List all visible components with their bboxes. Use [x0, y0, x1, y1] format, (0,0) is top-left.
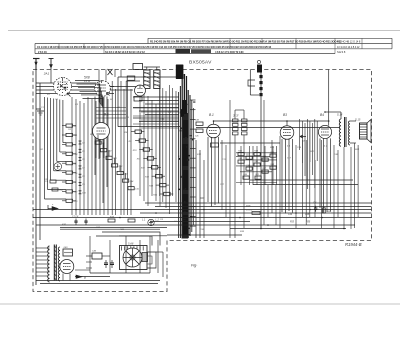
- bus line 6 AVC: [230, 228, 346, 230]
- wire bundle under tube B1: [44, 97, 46, 199]
- wire bundle left of switch: [159, 85, 161, 196]
- table row 3 dark entries: [176, 49, 191, 53]
- right wire bundle: [221, 140, 223, 210]
- output coupling nested loops: [148, 252, 157, 268]
- wires tube B2 to coils: [110, 86, 144, 88]
- bus stub below switch: [167, 234, 242, 236]
- arrow into B1 cathode: [67, 93, 71, 97]
- output transformer core: [344, 117, 346, 147]
- ground symbol G1: [36, 108, 41, 110]
- volume control arrow: [300, 135, 306, 138]
- resistor R16b box: [108, 219, 115, 222]
- band switch dark core: [182, 113, 189, 239]
- tube B1 envelope: [54, 78, 72, 96]
- svg-text:S1 2 8 4 16 S2 14 2 8 S3 1O: S1 2 8 4 16 S2 14 2 8 S3 1O 4 6 2 12: [105, 50, 145, 54]
- mains transformer T1 primary winding: [48, 246, 50, 282]
- component value table frame: [148, 37, 392, 39]
- lower left small parts: [50, 180, 56, 183]
- box below triode: [134, 97, 142, 102]
- wire bundle center-left: [71, 97, 73, 215]
- resistor R17b box: [128, 219, 135, 222]
- detector black blob: [257, 65, 262, 73]
- electrolytic caps pair: [105, 260, 107, 263]
- svg-text:R18: R18: [246, 205, 251, 208]
- screen line: [220, 142, 280, 144]
- AVC RC cluster boxes: [238, 153, 244, 156]
- band switch stray contacts: [183, 115, 185, 118]
- antenna A1 symbol: [33, 58, 40, 60]
- svg-text:BX505AV: BX505AV: [189, 60, 212, 66]
- svg-text:C7 C8: C7 C8: [72, 216, 79, 218]
- svg-text:R11: R11: [137, 159, 141, 161]
- earth antenna wire into circuit: [50, 68, 52, 83]
- wire bundle mid: [111, 81, 113, 215]
- contact ladder column B: [242, 119, 248, 122]
- svg-text:Fig·: Fig·: [191, 264, 198, 268]
- svg-text:14 W: 14 W: [84, 79, 91, 83]
- detector terminal dot G: [257, 60, 260, 63]
- heater wiring group: [195, 140, 197, 238]
- loudspeaker cone circle: [123, 248, 142, 267]
- loudspeaker assembly frame: [120, 246, 148, 270]
- svg-text:24O: 24O: [63, 246, 68, 249]
- transformer lead wires: [36, 247, 50, 249]
- output transformer S14 primary: [339, 119, 341, 146]
- tube B3 pins: [207, 137, 209, 202]
- crossed arrow terminal: [108, 69, 113, 75]
- svg-text:3ʳ 3ʳ: 3ʳ 3ʳ: [233, 114, 239, 118]
- filter block C45: [92, 253, 102, 259]
- svg-text:C44: C44: [288, 213, 293, 216]
- output coupling wires lower: [102, 232, 160, 246]
- tube B3 cathode box: [211, 143, 219, 147]
- junction dots top: [286, 120, 288, 122]
- detector lead down: [260, 97, 262, 229]
- table column separators: [58, 44, 60, 49]
- chassis dashed border outline: [33, 70, 372, 292]
- coupling network vertical bundle: [298, 119, 300, 150]
- wire top feed: [249, 70, 251, 96]
- plate supply line: [196, 127, 340, 129]
- mains transformer T1 core: [53, 245, 55, 281]
- bus stub left section: [60, 227, 167, 229]
- detector step wire: [248, 80, 255, 86]
- tube B5 grid cap wire: [328, 70, 330, 126]
- band switch right contact stubs: [190, 99, 196, 101]
- speaker hub: [130, 255, 135, 260]
- wire antenna bus: [36, 82, 96, 84]
- svg-text:B4: B4: [320, 113, 324, 117]
- bus line 5: [36, 224, 355, 226]
- mains transformer T1 secondary winding: [58, 247, 60, 281]
- svg-text:1O 14 16 14 2 8 4 12: 1O 14 16 14 2 8 4 12: [337, 45, 360, 49]
- bus junction dots: [75, 209, 77, 211]
- AVC cluster horizontal wires: [236, 152, 277, 154]
- rectifier pins: [62, 274, 64, 281]
- contact ladder column A: [233, 119, 239, 122]
- AVC cluster vertical wires: [240, 146, 242, 185]
- tube B1 electrode dots: [58, 83, 59, 84]
- band switch wafer stack: [178, 92, 180, 238]
- tube B2 electrodes: [97, 84, 106, 86]
- coil top connecting wires: [144, 66, 160, 68]
- B+ arrow pointer: [47, 205, 49, 210]
- scan page top edge line: [8, 30, 400, 32]
- bus line upper right 1: [250, 179, 353, 181]
- tube B2 envelope: [95, 81, 111, 97]
- detector bead column: [260, 73, 262, 98]
- capacitor ladder column 2: [79, 141, 81, 144]
- bus line 0a: [145, 202, 372, 204]
- border feed wires: [98, 70, 100, 81]
- tube B1 inner electrode marks: [60, 85, 62, 87]
- svg-text:4 12 4O 4B 12 O 14 8: 4 12 4O 4B 12 O 14 8: [337, 39, 361, 43]
- arrow to B: [76, 275, 82, 278]
- output transformer leads: [340, 112, 342, 119]
- svg-text:5X8: 5X8: [84, 76, 90, 80]
- svg-text:C31: C31: [74, 135, 78, 137]
- small box top: [127, 76, 135, 80]
- oscillator shield box inner: [125, 81, 127, 127]
- field coil box: [142, 253, 148, 262]
- tube B3 envelope: [207, 124, 221, 138]
- grid line above tubes: [214, 120, 329, 122]
- loudspeaker spokes: [126, 251, 139, 264]
- bus line upper right 2: [253, 184, 358, 186]
- earth antenna arrow: [50, 59, 52, 68]
- tube B5 pins: [319, 138, 321, 208]
- band switch top black drum: [176, 65, 184, 80]
- svg-text:C48: C48: [305, 213, 310, 216]
- bus line 2: [140, 212, 372, 214]
- svg-text:B.1: B.1: [104, 113, 109, 117]
- resistor ladder column 1: [66, 124, 73, 127]
- speaker frame top terminal ticks: [121, 246, 123, 250]
- components left of B3: [196, 122, 203, 125]
- svg-text:S.15: S.15: [355, 118, 361, 122]
- wires band switch to mid stairs: [133, 107, 179, 109]
- rectifier tube B6 envelope: [60, 260, 74, 274]
- scan page bottom edge line: [0, 303, 400, 305]
- wire bundle center: [139, 88, 141, 196]
- bottom return wires: [36, 280, 160, 282]
- wire left rail 2: [39, 83, 41, 240]
- svg-text:R1944-B: R1944-B: [345, 242, 362, 247]
- tube B2a pins: [95, 139, 97, 158]
- staircase wires between B1 and B2: [75, 81, 99, 103]
- tube B1 grid electrodes: [58, 81, 68, 83]
- coil interconnect bus: [96, 107, 126, 109]
- svg-text:2 8 4 16: 2 8 4 16: [38, 50, 47, 54]
- svg-text:R55: R55: [306, 221, 311, 223]
- arrow into B2: [107, 93, 110, 96]
- tube B3 top stub: [213, 121, 215, 124]
- oscillator triode circle: [135, 85, 146, 96]
- svg-text:S12 4 8: S12 4 8: [337, 50, 346, 54]
- coil S2 box: [154, 70, 160, 89]
- capacitor C7 C8 pair: [75, 219, 77, 222]
- svg-text:S.14: S.14: [337, 113, 343, 117]
- tube B4 envelope: [280, 126, 294, 140]
- svg-text:4O: 4O: [117, 106, 120, 109]
- voltage adjust panel box: [63, 249, 73, 256]
- svg-text:1OOΩ: 1OOΩ: [246, 210, 253, 212]
- diode circle V1: [54, 163, 62, 171]
- dial marker box: [133, 64, 143, 70]
- output transformer secondary: [349, 121, 351, 145]
- svg-text:C1 14 16 4 16 C2 5O C3 1OO C4: C1 14 16 4 16 C2 5O C3 1OO C4 25O C5 5O …: [37, 45, 272, 49]
- svg-text:B3: B3: [283, 113, 287, 117]
- contact ladder feed wires: [234, 110, 236, 119]
- pickup jack L2: [148, 219, 154, 225]
- tube B2a envelope: [93, 123, 110, 140]
- svg-text:2A1: 2A1: [43, 72, 50, 76]
- band switch dark contact blobs: [182, 100, 187, 114]
- svg-text:C11: C11: [113, 158, 117, 160]
- svg-text:B.1: B.1: [209, 113, 214, 117]
- coil S1 box: [144, 70, 150, 89]
- bus line 1: [33, 209, 372, 211]
- component staircase RC network 1: [95, 141, 101, 144]
- wire left rail: [35, 70, 37, 286]
- svg-text:4 8 8 12 4 T1 2OO T2 14O: 4 8 8 12 4 T1 2OO T2 14O: [215, 50, 244, 54]
- bus line 0b: [155, 206, 372, 208]
- bus line 3: [33, 217, 372, 219]
- wires fanning into band switch: [133, 96, 179, 98]
- tube B2 pins: [94, 97, 96, 176]
- component staircase RC network 2: [135, 130, 141, 133]
- svg-text:R1 24O R2 1M R3 5Ok R4 1M R5 O: R1 24O R2 1M R3 5Ok R4 1M R5 O.1 R6 3OO …: [150, 39, 342, 43]
- svg-text:5.A8: 5.A8: [128, 242, 134, 246]
- loudspeaker LS1: [360, 123, 368, 139]
- svg-text:B: B: [84, 276, 86, 280]
- lower vertical links: [89, 236, 91, 273]
- bus line 4: [150, 221, 250, 223]
- wire into lobe: [119, 235, 167, 237]
- tube B4 pins: [281, 139, 283, 212]
- tube B5 envelope: [318, 125, 331, 138]
- oscillator shield box outer: [117, 77, 119, 127]
- resistor R19 right box: [323, 208, 326, 213]
